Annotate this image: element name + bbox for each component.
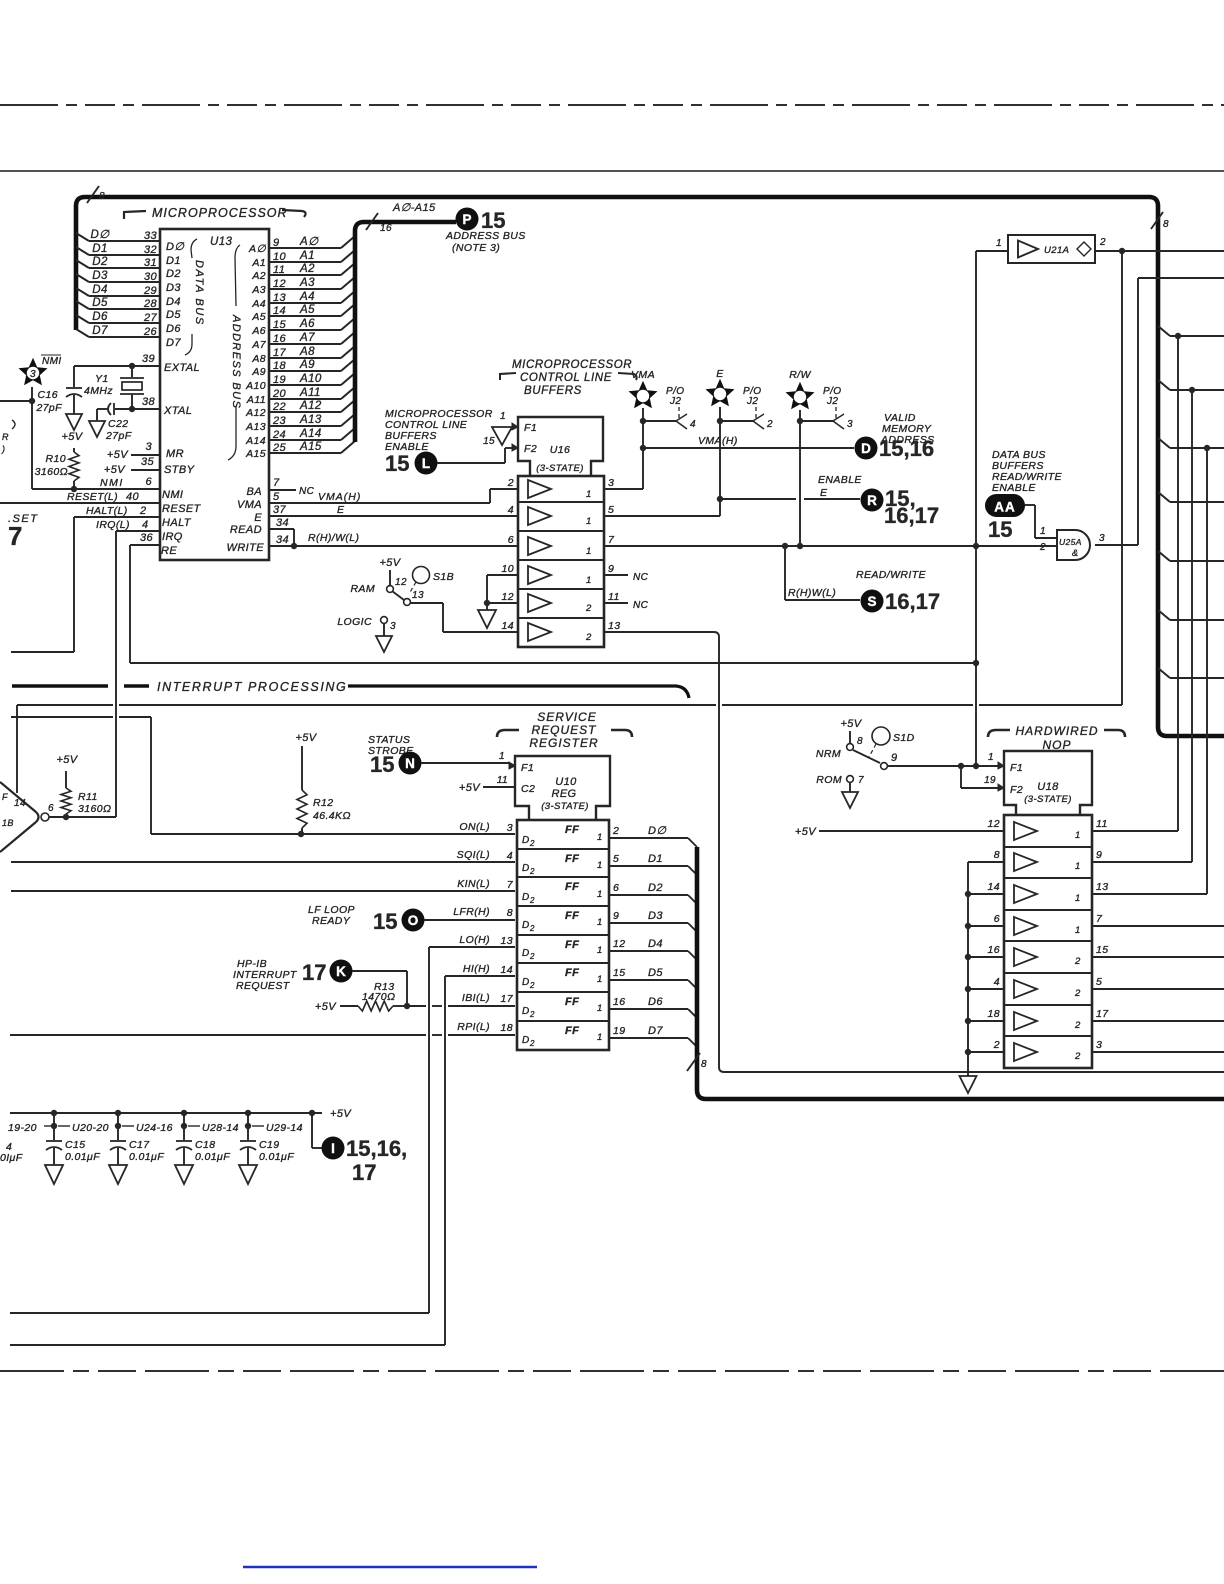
wire U18 input row 2 — [968, 1051, 1004, 1053]
svg-text:23: 23 — [272, 415, 287, 427]
U16 buffer 5 triangle — [528, 594, 551, 612]
svg-text:F1: F1 — [1010, 762, 1023, 774]
svg-text:VMA(H): VMA(H) — [318, 491, 361, 503]
svg-text:A5: A5 — [251, 311, 266, 323]
ground below C17 — [109, 1165, 127, 1184]
U16 buffer 4 triangle — [528, 566, 551, 584]
enable triangle into U16 F1 — [492, 427, 512, 445]
svg-text:A12: A12 — [299, 400, 322, 412]
wire U21A input vertical — [975, 251, 977, 766]
svg-text:1: 1 — [1075, 830, 1081, 841]
wire address stub A14 — [269, 439, 341, 441]
svg-text:S1D: S1D — [893, 732, 915, 744]
svg-text:F2: F2 — [1010, 784, 1023, 796]
svg-text:15: 15 — [988, 517, 1012, 542]
svg-text:4: 4 — [690, 419, 696, 430]
U16 cell divider 5 — [518, 617, 604, 619]
capacitor C17 — [110, 1140, 126, 1142]
svg-text:D∅: D∅ — [90, 229, 110, 241]
net label U28-14 — [188, 1125, 200, 1127]
svg-text:0IμF: 0IμF — [0, 1152, 23, 1164]
U18 buffer 2 triangle — [1014, 853, 1037, 871]
svg-text:A4: A4 — [251, 298, 266, 310]
svg-text:STBY: STBY — [164, 464, 195, 476]
wire U18 out 5 — [1092, 988, 1224, 990]
svg-text:3160Ω: 3160Ω — [78, 803, 111, 815]
wire E pin 37 — [269, 515, 518, 517]
svg-text:READ: READ — [230, 524, 262, 536]
switch S1D wiper — [853, 750, 880, 763]
svg-text:34: 34 — [276, 517, 289, 529]
svg-text:A6: A6 — [251, 325, 266, 337]
U10 register stack box — [517, 820, 609, 1050]
svg-text:6: 6 — [508, 534, 514, 546]
svg-text:2: 2 — [529, 952, 535, 961]
wire AA to U25A pin 1 — [1025, 504, 1035, 506]
wire U18 input row 14 — [968, 893, 1004, 895]
svg-text:+5V: +5V — [379, 557, 401, 569]
svg-text:0.01μF: 0.01μF — [195, 1151, 230, 1163]
svg-text:30: 30 — [144, 271, 158, 283]
wire U18 out 7 — [1092, 925, 1224, 927]
U18 buffer stack box — [1004, 815, 1092, 1068]
svg-text:A1: A1 — [251, 257, 266, 269]
svg-text:+5V: +5V — [61, 431, 83, 443]
resistor R10 — [73, 448, 75, 452]
flag AA — [985, 494, 1025, 517]
svg-text:R/W: R/W — [789, 369, 811, 381]
svg-text:INTERRUPT PROCESSING: INTERRUPT PROCESSING — [157, 680, 347, 694]
data bus from U10 thick — [697, 847, 1224, 1099]
svg-text:1: 1 — [500, 411, 506, 422]
svg-text:LOGIC: LOGIC — [337, 616, 372, 628]
U18 buffer 8 triangle — [1014, 1043, 1037, 1061]
svg-text:8: 8 — [99, 191, 105, 202]
and gate U25A — [1057, 530, 1090, 560]
wire XTAL row pin 38 — [115, 408, 160, 410]
U18 cell divider 7 — [1004, 1035, 1092, 1037]
ground below U18 inputs — [960, 1076, 977, 1093]
svg-text:40: 40 — [126, 491, 140, 503]
bus width slash /8 top right — [1151, 212, 1163, 229]
wire address stub A9 — [269, 370, 341, 372]
wire HI(H) vertical from bottom — [445, 975, 515, 977]
U10 cell divider 4 — [517, 934, 609, 936]
svg-text:26: 26 — [143, 326, 158, 338]
svg-text:10: 10 — [502, 563, 514, 575]
svg-text:REG: REG — [551, 788, 576, 800]
svg-text:D3: D3 — [92, 270, 108, 282]
bus tap wire 4 — [1158, 492, 1170, 502]
svg-text:5: 5 — [273, 491, 280, 503]
wire U18 out 15 — [1092, 956, 1224, 958]
dashed link R/W — [835, 407, 837, 418]
wire data bus stub D4 — [76, 288, 89, 296]
wire NMI net vertical — [31, 387, 33, 489]
svg-text:D6: D6 — [648, 996, 663, 1008]
capacitor C19 — [240, 1140, 256, 1142]
U10 cell divider 2 — [517, 876, 609, 878]
svg-text:F: F — [2, 792, 8, 802]
svg-text:7: 7 — [608, 534, 615, 546]
switch S1B contact 13 — [404, 599, 411, 606]
wire U18 input row 16 — [968, 956, 1004, 958]
svg-text:A1: A1 — [299, 250, 315, 262]
svg-text:NC: NC — [633, 600, 649, 611]
ground below C15 — [45, 1165, 63, 1184]
wire address stub A6 — [269, 329, 341, 331]
svg-text:NC: NC — [633, 572, 649, 583]
buffer U21A box — [1008, 235, 1095, 263]
wire address stub A10 — [269, 384, 341, 386]
svg-text:FF: FF — [565, 910, 579, 922]
wire LO(H) vertical from bottom — [429, 946, 515, 948]
svg-text:FF: FF — [565, 996, 579, 1008]
U18 buffer 4 triangle — [1014, 917, 1037, 935]
wire data bus stub D3 — [76, 274, 89, 282]
svg-text:ROM: ROM — [816, 774, 842, 786]
wire E to R flag — [720, 498, 796, 500]
svg-text:5: 5 — [613, 853, 619, 865]
svg-text:R11: R11 — [78, 791, 98, 803]
svg-text:+5V: +5V — [315, 1001, 337, 1013]
bus tap wire 5 — [1158, 551, 1170, 561]
top inner solid border line — [0, 170, 1224, 172]
svg-text:12: 12 — [273, 278, 286, 290]
wire U18 out 17 — [1092, 1020, 1224, 1022]
U16 cell divider 3 — [518, 559, 604, 561]
svg-text:3160Ω: 3160Ω — [35, 466, 68, 478]
svg-text:FF: FF — [565, 967, 579, 979]
U18 cell divider 1 — [1004, 846, 1092, 848]
svg-text:2: 2 — [585, 632, 592, 643]
junction tap 2 — [1189, 387, 1195, 393]
svg-text:L: L — [422, 456, 430, 471]
svg-text:FF: FF — [565, 824, 579, 836]
U18 cell divider 5 — [1004, 972, 1092, 974]
svg-text:D: D — [522, 863, 530, 874]
svg-text:F1: F1 — [524, 422, 537, 434]
junction tap 1 — [1175, 333, 1181, 339]
svg-text:C19: C19 — [259, 1139, 279, 1151]
svg-text:1: 1 — [586, 489, 592, 500]
svg-text:A10: A10 — [299, 373, 322, 385]
wire feedback to left gate — [17, 704, 113, 706]
svg-text:(NOTE 3): (NOTE 3) — [452, 242, 500, 254]
star node NMI-3 — [19, 358, 48, 386]
wire VMA pin 5 VMA(H) — [269, 502, 490, 504]
ground below C19 — [239, 1165, 257, 1184]
svg-text:+5V: +5V — [459, 782, 481, 794]
svg-text:20: 20 — [272, 388, 287, 400]
svg-text:14: 14 — [501, 964, 513, 976]
svg-text:19: 19 — [273, 374, 286, 386]
svg-text:MICROPROCESSOR: MICROPROCESSOR — [152, 206, 288, 220]
bus width slash /8 top left — [87, 186, 99, 203]
connector pin 4 VMA — [643, 420, 676, 422]
gate output bubble — [41, 813, 49, 821]
svg-text:6: 6 — [48, 803, 54, 814]
svg-text:1: 1 — [1075, 861, 1081, 872]
net label U24-16 — [122, 1125, 134, 1127]
wire address stub A12 — [269, 411, 341, 413]
svg-text:NMI: NMI — [162, 489, 183, 501]
capacitor C18 — [176, 1140, 192, 1142]
capacitor C16 — [73, 366, 75, 387]
svg-text:U24-16: U24-16 — [136, 1122, 173, 1134]
svg-text:34: 34 — [276, 534, 289, 546]
flag D to sheets 15 16 — [855, 437, 878, 460]
svg-text:11: 11 — [608, 591, 620, 603]
svg-text:10: 10 — [273, 251, 287, 263]
svg-text:19: 19 — [613, 1025, 625, 1037]
svg-text:RAM: RAM — [350, 583, 375, 595]
wire READ pin 34 step — [269, 528, 294, 530]
svg-text:16,17: 16,17 — [884, 503, 939, 528]
svg-text:7: 7 — [273, 477, 280, 489]
svg-text:A3: A3 — [251, 284, 266, 296]
svg-text:D5: D5 — [92, 297, 108, 309]
switch S1D contact 8 — [847, 744, 854, 751]
U18 buffer 1 triangle — [1014, 822, 1037, 840]
U21A diamond — [1077, 242, 1091, 256]
svg-text:D4: D4 — [166, 296, 181, 308]
svg-text:E: E — [820, 487, 828, 499]
svg-text:18: 18 — [501, 1022, 513, 1034]
wire EXTAL row pin 39 — [74, 365, 160, 367]
wire U16 output 11 NC — [604, 602, 628, 604]
svg-text:AA: AA — [994, 500, 1016, 515]
svg-text:D∅: D∅ — [166, 241, 184, 253]
svg-text:2: 2 — [1039, 542, 1046, 553]
wire C22 to ground — [96, 409, 98, 421]
junction tap 3 — [1204, 445, 1210, 451]
svg-text:A∅-A15: A∅-A15 — [392, 202, 436, 214]
resistor R11 — [65, 771, 67, 788]
svg-text:DATA BUS: DATA BUS — [193, 260, 205, 326]
wire address stub A7 — [269, 343, 341, 345]
svg-text:2: 2 — [529, 924, 535, 933]
svg-text:+5V: +5V — [295, 732, 317, 744]
capacitor C22 — [113, 403, 115, 415]
wire contact 9 to U18 F1 — [887, 765, 1004, 767]
svg-text:0.01μF: 0.01μF — [259, 1151, 294, 1163]
svg-text:+5V: +5V — [795, 826, 817, 838]
junction rail C17 — [115, 1110, 121, 1116]
wire data bus stub D2 — [76, 260, 89, 268]
wire RESET(L) row — [0, 502, 160, 504]
svg-text:8: 8 — [1163, 219, 1169, 230]
svg-text:MICROPROCESSOR: MICROPROCESSOR — [512, 359, 632, 371]
svg-text:8: 8 — [994, 849, 1000, 861]
star node E — [706, 379, 735, 407]
wire NMI row — [32, 488, 160, 490]
svg-text:N: N — [405, 756, 415, 771]
svg-text:(3-STATE): (3-STATE) — [1024, 794, 1072, 805]
svg-text:31: 31 — [144, 257, 157, 269]
wire data bus stub D1 — [76, 247, 89, 255]
svg-text:D: D — [522, 835, 530, 846]
ground below contact 3 — [383, 623, 385, 636]
U16 upper box — [518, 417, 603, 476]
svg-text:1: 1 — [1075, 925, 1081, 936]
svg-text:A14: A14 — [245, 435, 266, 447]
svg-text:A15: A15 — [299, 441, 322, 453]
svg-text:VMA: VMA — [631, 369, 655, 381]
svg-text:HALT: HALT — [162, 517, 192, 529]
svg-text:SERVICE: SERVICE — [537, 710, 596, 724]
svg-text:O: O — [408, 913, 419, 928]
wire U16 out7 row — [604, 545, 1057, 547]
svg-text:3: 3 — [390, 621, 396, 632]
svg-text:HI(H): HI(H) — [463, 963, 490, 975]
svg-text:0.01μF: 0.01μF — [65, 1151, 100, 1163]
wire U16 output 9 NC — [604, 574, 628, 576]
svg-text:A11: A11 — [246, 394, 266, 406]
svg-text:IRQ: IRQ — [162, 531, 183, 543]
svg-text:NRM: NRM — [816, 748, 841, 760]
wire SQI(L) from left — [11, 861, 515, 863]
wire data bus thick loop top/right — [76, 197, 1224, 736]
svg-text:E: E — [254, 512, 262, 524]
svg-text:A15: A15 — [245, 448, 266, 460]
wire address stub A8 — [269, 357, 341, 359]
svg-text:46.4KΩ: 46.4KΩ — [313, 810, 351, 822]
svg-text:6: 6 — [994, 913, 1000, 925]
switch S1D contact 9 — [881, 763, 888, 770]
svg-text:A∅: A∅ — [299, 236, 319, 248]
U18 cell divider 4 — [1004, 940, 1092, 942]
wire U18 input row 8 — [968, 861, 1004, 863]
svg-text:FF: FF — [565, 881, 579, 893]
svg-text:U10: U10 — [555, 776, 577, 788]
wire U18 input tie vertical — [967, 862, 969, 1076]
svg-text:F1: F1 — [521, 762, 534, 774]
wire stub C18 — [183, 1113, 185, 1140]
svg-text:11: 11 — [497, 775, 508, 786]
resistor R12 — [301, 746, 303, 790]
U18 upper box — [1004, 751, 1092, 815]
svg-text:A12: A12 — [245, 407, 266, 419]
svg-text:3: 3 — [145, 441, 152, 453]
top border chain line — [0, 104, 1224, 106]
blue scan artifact line — [243, 1566, 537, 1568]
svg-text:2: 2 — [529, 981, 535, 990]
wire tap3 to U18 out 13 — [1206, 448, 1208, 894]
svg-text:ENABLE: ENABLE — [992, 482, 1036, 494]
svg-text:4: 4 — [508, 504, 514, 516]
svg-text:1: 1 — [597, 1003, 603, 1014]
U16 buffer 1 triangle — [528, 480, 551, 498]
star node R/W — [786, 382, 815, 410]
svg-text:2: 2 — [766, 419, 773, 430]
svg-text:D: D — [522, 1035, 530, 1046]
svg-text:11: 11 — [273, 264, 285, 276]
svg-text:15: 15 — [373, 909, 397, 934]
svg-text:9: 9 — [273, 237, 280, 249]
svg-text:D∅: D∅ — [648, 825, 666, 837]
wire tap1 to U18 out 11 — [1177, 336, 1179, 831]
svg-text:1: 1 — [597, 1032, 603, 1043]
wire address stub A∅ — [269, 247, 341, 249]
U16 buffer 2 triangle — [528, 507, 551, 525]
svg-text:2: 2 — [139, 505, 147, 517]
svg-text:ADDRESS BUS: ADDRESS BUS — [445, 230, 526, 242]
svg-text:12: 12 — [988, 818, 1000, 830]
svg-text:15: 15 — [370, 752, 394, 777]
svg-text:J2: J2 — [826, 396, 838, 407]
svg-text:&: & — [1072, 548, 1078, 558]
wire stub C19 — [247, 1113, 249, 1140]
wire U18 out 11 — [1092, 830, 1178, 832]
svg-text:RPI(L): RPI(L) — [457, 1021, 490, 1033]
svg-text:+5V: +5V — [104, 464, 126, 476]
ground below contact 7 — [849, 782, 851, 792]
svg-text:NMI: NMI — [42, 356, 62, 367]
svg-text:2: 2 — [1074, 1051, 1081, 1062]
dashed link VMA — [678, 407, 680, 418]
wire U10 D4 output — [609, 950, 688, 952]
net label U20-20 — [58, 1125, 70, 1127]
svg-text:9: 9 — [613, 910, 619, 922]
svg-text:15: 15 — [1096, 944, 1108, 956]
wire O flag to U10 pin 8 — [424, 919, 515, 921]
wire F2 branch — [960, 766, 962, 788]
svg-text:3: 3 — [1096, 1039, 1102, 1051]
crystal Y1 — [131, 366, 133, 377]
wire IBI(L) to U10 pin 17 — [407, 1005, 426, 1007]
svg-text:REGISTER: REGISTER — [529, 736, 598, 750]
U10 cell divider 1 — [517, 848, 609, 850]
svg-text:C17: C17 — [129, 1139, 150, 1151]
U13 ADDRESS BUS label — [235, 245, 240, 306]
U10 upper box — [515, 756, 610, 820]
svg-text:D5: D5 — [648, 967, 663, 979]
svg-text:5: 5 — [1096, 976, 1102, 988]
svg-text:A8: A8 — [299, 346, 315, 358]
U16 cell divider 1 — [518, 501, 604, 503]
svg-text:VMA: VMA — [237, 499, 262, 511]
svg-text:HARDWIRED: HARDWIRED — [1016, 724, 1099, 738]
svg-text:D4: D4 — [92, 284, 108, 296]
wire contact 13 to U16 pin 14 — [410, 602, 443, 604]
heading HARDWIRED NOP — [988, 730, 1010, 737]
U18 cell divider 6 — [1004, 1004, 1092, 1006]
svg-text:+5V: +5V — [840, 718, 862, 730]
wire address stub A13 — [269, 425, 341, 427]
switch S1D actuator circle — [872, 727, 890, 745]
svg-text:13: 13 — [1096, 881, 1108, 893]
svg-text:16: 16 — [273, 333, 287, 345]
svg-text:U13: U13 — [210, 236, 233, 248]
svg-text:D4: D4 — [648, 938, 663, 950]
svg-text:9: 9 — [608, 563, 614, 575]
svg-text:A14: A14 — [299, 428, 322, 440]
switch S1B actuator circle — [413, 567, 430, 584]
svg-text:1: 1 — [597, 917, 603, 928]
divider INTERRUPT PROCESSING — [12, 684, 108, 688]
switch S1B contact 12 — [387, 586, 394, 593]
svg-text:7: 7 — [507, 879, 514, 891]
svg-text:D: D — [861, 441, 871, 456]
svg-text:14: 14 — [14, 798, 26, 809]
svg-text:ADDRESS BUS: ADDRESS BUS — [230, 314, 242, 409]
svg-text:2: 2 — [529, 1039, 535, 1048]
svg-text:17: 17 — [273, 347, 287, 359]
svg-text:A7: A7 — [251, 339, 266, 351]
svg-text:U20-20: U20-20 — [72, 1122, 109, 1134]
svg-text:3: 3 — [608, 477, 614, 489]
